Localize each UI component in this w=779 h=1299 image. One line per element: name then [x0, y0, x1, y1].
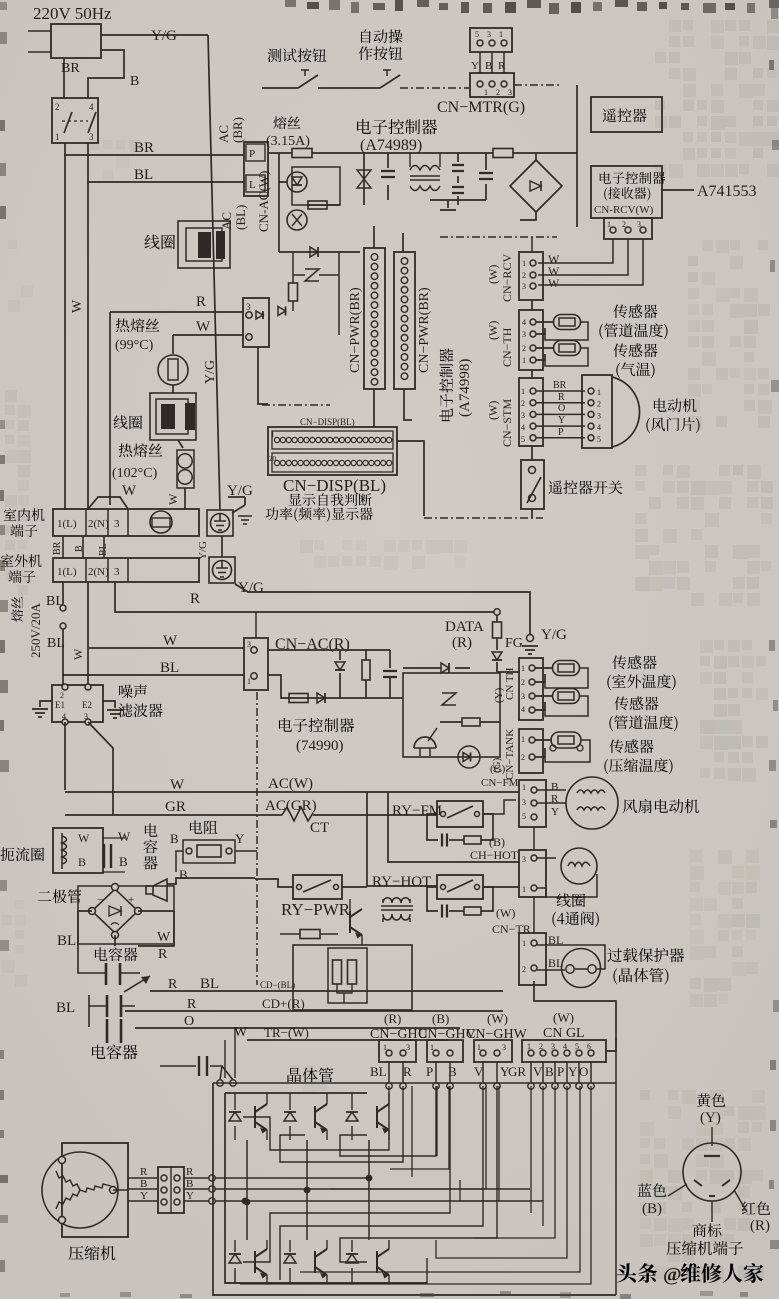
- label 电容器 bottom: [92, 1045, 138, 1060]
- label 线圈 2: [113, 415, 142, 429]
- wire AC(W) bus: [65, 791, 519, 793]
- svg-text:4: 4: [62, 712, 66, 721]
- svg-text:(74990): (74990): [296, 738, 344, 754]
- svg-text:5: 5: [597, 435, 601, 444]
- svg-text:(R): (R): [384, 1011, 401, 1026]
- capacitor C22: [107, 1019, 121, 1043]
- svg-text:W: W: [166, 493, 180, 505]
- svg-text:(A74989): (A74989): [360, 137, 422, 154]
- label 传感器 (管道温度) 2: [614, 696, 658, 710]
- svg-text:L: L: [249, 179, 256, 191]
- label 过载保护器 (晶体管): [607, 948, 684, 962]
- svg-text:BL: BL: [46, 594, 64, 609]
- svg-text:1: 1: [247, 677, 251, 686]
- wire CN-TH to CN-STM: [531, 370, 533, 378]
- svg-text:BL: BL: [370, 1064, 387, 1079]
- label 传感器 (气温): [613, 343, 657, 357]
- diode D11: [441, 663, 449, 673]
- svg-text:1: 1: [522, 885, 526, 894]
- right nest verticals and returns: [390, 1086, 449, 1169]
- label 电阻: [190, 820, 218, 834]
- svg-text:4: 4: [597, 423, 601, 432]
- svg-text:2: 2: [496, 88, 500, 97]
- svg-text:2(N): 2(N): [88, 566, 109, 578]
- wire main bus y153 with fuse: [268, 152, 292, 154]
- svg-text:3: 3: [406, 1043, 410, 1052]
- connector CN-AC(W) strip with P and L cells: [244, 142, 268, 196]
- svg-text:2: 2: [521, 753, 525, 762]
- diode D10 vertical: [339, 650, 341, 660]
- svg-text:(A74998): (A74998): [457, 359, 473, 417]
- svg-text:(R): (R): [452, 635, 472, 651]
- label 传感器 (室外温度): [612, 655, 656, 669]
- svg-text:R: R: [140, 1166, 148, 1178]
- svg-text:(W): (W): [486, 265, 500, 284]
- svg-text:1(L): 1(L): [57, 518, 77, 530]
- RY-HOT snubber: [427, 887, 438, 911]
- svg-text:(BL): (BL): [233, 205, 248, 230]
- svg-text:FG: FG: [505, 636, 523, 651]
- wire AC(W) branch down to CH-HOT: [388, 792, 519, 862]
- svg-text:1: 1: [271, 431, 275, 439]
- svg-text:DATA: DATA: [445, 619, 484, 635]
- watermark 头条@维修人家: [617, 1263, 657, 1283]
- resistor R2: [308, 201, 327, 209]
- resistor on bus right: [493, 149, 513, 158]
- wire dash-dot right of CN-MTR: [514, 84, 560, 86]
- svg-text:Y/G: Y/G: [197, 541, 209, 560]
- label 室外机端子: [1, 554, 42, 567]
- leader blue: [668, 1184, 687, 1196]
- svg-text:O: O: [184, 1014, 194, 1029]
- svg-text:1: 1: [521, 735, 525, 744]
- relay RY-HOT box: [437, 875, 483, 899]
- switch auto button: [380, 75, 400, 88]
- svg-text:CN−STM: CN−STM: [500, 399, 514, 447]
- svg-text:(W): (W): [496, 906, 515, 920]
- wire branch x367 down to RY-HOT row: [367, 792, 437, 886]
- earth symbol Y/G 1: [207, 510, 233, 536]
- svg-text:(B): (B): [432, 1011, 449, 1026]
- svg-text:P: P: [249, 148, 255, 160]
- fuse in indoor block: [150, 511, 172, 533]
- svg-text:3: 3: [522, 282, 526, 291]
- wire W to thermal fuse: [173, 334, 243, 336]
- svg-text:R: R: [158, 947, 168, 962]
- wire Y/G vertical down to earth: [208, 35, 220, 510]
- svg-text:(W): (W): [487, 1011, 508, 1026]
- svg-text:1: 1: [522, 783, 526, 792]
- wire Y/G from plug to vertical: [101, 34, 208, 36]
- svg-text:BR: BR: [52, 541, 63, 555]
- connector CN-PWR strip 1: [364, 248, 385, 389]
- svg-text:B: B: [78, 855, 86, 869]
- opto coupler U1: [287, 172, 307, 192]
- thermal fuse TF2 102C: [178, 440, 183, 448]
- label 电子控制器 (74990): [279, 718, 354, 732]
- svg-text:O: O: [579, 1064, 588, 1079]
- wire BL bus from relay to CN-AC(W): [88, 143, 244, 182]
- label 室内机端子: [4, 508, 45, 521]
- thyristor arrow R: [124, 976, 150, 992]
- transistor bank cells top row: [234, 1093, 236, 1140]
- capacitor C23 bottom: [160, 1065, 196, 1067]
- wire BR from plug down to relay: [63, 58, 65, 98]
- svg-text:P: P: [426, 1064, 433, 1079]
- wire into RY-PWR: [255, 879, 367, 887]
- wire from CN-DISP right: [397, 441, 424, 516]
- svg-text:5: 5: [521, 435, 525, 444]
- sensor RT5 compressor temp: [535, 740, 552, 757]
- small circuit left of CN-PWR strip: resistor diode zener: [292, 252, 294, 283]
- connector CN-TANK strip: [519, 729, 543, 773]
- svg-text:1: 1: [499, 30, 503, 39]
- svg-text:CN−PWR(BR): CN−PWR(BR): [417, 287, 432, 373]
- capacitor C20: [106, 963, 120, 985]
- wire BL vertical long left: [87, 182, 89, 510]
- zener D12: [442, 693, 456, 705]
- svg-text:CN−MTR(G): CN−MTR(G): [437, 99, 525, 116]
- svg-text:A741553: A741553: [697, 183, 757, 200]
- svg-text:CN−DISP(BL): CN−DISP(BL): [283, 476, 386, 495]
- wire switch down to dash-dot boundary: [531, 509, 533, 518]
- connector CN-MTR bottom pins 1 2 3: [470, 73, 514, 97]
- svg-text:BL: BL: [134, 167, 153, 183]
- svg-text:2: 2: [522, 965, 526, 974]
- diode D2 row: [279, 251, 360, 253]
- label 遥控器开关: [549, 480, 623, 494]
- capacitor C1: [387, 153, 389, 200]
- svg-text:−: −: [97, 894, 103, 906]
- svg-text:220V 50Hz: 220V 50Hz: [33, 4, 112, 23]
- phase lines from compressor: [209, 1175, 215, 1181]
- svg-text:(W): (W): [553, 1010, 574, 1025]
- piezo horn symbol: [146, 879, 167, 901]
- connector CN 2pin (3): [243, 298, 269, 347]
- bank inner left vertical: [225, 1093, 427, 1283]
- svg-text:3: 3: [597, 411, 601, 420]
- svg-text:R: R: [168, 977, 178, 992]
- svg-text:Y: Y: [471, 60, 479, 72]
- svg-text:W: W: [70, 299, 85, 313]
- svg-text:B: B: [179, 867, 188, 882]
- svg-text:TR−(W): TR−(W): [264, 1025, 309, 1040]
- transistor bank cells bottom row: [234, 1240, 236, 1283]
- svg-text:2: 2: [522, 271, 526, 280]
- wire B from plug to relay: [88, 50, 124, 98]
- svg-text:R: R: [558, 392, 565, 403]
- svg-text:3: 3: [522, 798, 526, 807]
- svg-text:(B): (B): [489, 835, 505, 849]
- inner box 74990: [403, 673, 500, 757]
- wire 74990 second rail with resistor and diode: [268, 675, 403, 698]
- label 压缩机端子: [667, 1241, 743, 1255]
- svg-text:B: B: [551, 781, 558, 793]
- wire CH-HOT strip to CN-TR strip: [533, 897, 535, 933]
- svg-text:R: R: [498, 60, 506, 72]
- svg-text:R: R: [187, 997, 197, 1012]
- noise filter box: [52, 685, 103, 722]
- svg-text:Y: Y: [235, 831, 245, 846]
- coil 4-way valve circle: [561, 848, 597, 884]
- svg-text:O: O: [558, 403, 565, 414]
- edge artifacts: [285, 0, 296, 7]
- transistor Q10: [414, 737, 436, 748]
- resistor R10 vertical: [365, 650, 367, 660]
- svg-text:Y: Y: [551, 806, 559, 818]
- wire opto to resistor: [279, 153, 340, 252]
- wire CN-STM down to remote switch: [531, 446, 533, 460]
- svg-text:2: 2: [521, 399, 525, 408]
- svg-text:GR: GR: [508, 1064, 526, 1079]
- svg-text:(G): (G): [491, 757, 503, 773]
- svg-text:W: W: [71, 648, 85, 660]
- svg-text:E2: E2: [82, 700, 92, 710]
- svg-text:Y/G: Y/G: [203, 360, 218, 384]
- compressor box: [62, 1143, 128, 1237]
- svg-text:3: 3: [487, 30, 491, 39]
- svg-text:250V/20A: 250V/20A: [28, 603, 43, 659]
- svg-text:Y/G: Y/G: [541, 627, 567, 643]
- relay RY-FM box: [437, 801, 483, 827]
- transformer T1 on bus: [410, 153, 440, 191]
- overload protector circle: [562, 949, 601, 988]
- svg-text:B: B: [545, 1064, 554, 1079]
- svg-text:2: 2: [521, 678, 525, 687]
- wire Y/G bus right: [235, 584, 530, 634]
- svg-text:2: 2: [597, 400, 601, 409]
- capacitor C2 pair: [457, 153, 459, 205]
- svg-text:3: 3: [114, 566, 120, 578]
- label 电子控制器 (A74989): [357, 119, 437, 134]
- capacitor C3: [485, 153, 487, 200]
- wire DATA chain to CN-TH strip: [497, 671, 519, 673]
- bank outer left vertical: [213, 1083, 616, 1295]
- svg-text:BR: BR: [61, 61, 80, 76]
- svg-text:RY−FM: RY−FM: [392, 803, 442, 819]
- svg-text:E1: E1: [55, 700, 65, 710]
- svg-text:W: W: [118, 829, 131, 844]
- label 自动操作按钮: [361, 29, 402, 43]
- ghost bleed-through text regions: [669, 20, 681, 32]
- remote switch SW3 遥控器开关: [521, 460, 544, 509]
- svg-text:Y/G: Y/G: [151, 28, 177, 44]
- label 传感器 (管道温度): [613, 304, 657, 318]
- capacitor C10: [389, 650, 391, 668]
- wire from connector down to dash-dot: [258, 347, 268, 404]
- collector risers bottom row: [247, 1178, 369, 1240]
- svg-text:R: R: [186, 1166, 194, 1178]
- svg-text:5: 5: [522, 812, 526, 821]
- label 噪声 滤波器: [119, 684, 147, 698]
- wires bridge out: [78, 911, 92, 946]
- svg-text:5: 5: [475, 30, 479, 39]
- wire dash-dot to CN-MTR: [400, 87, 470, 89]
- svg-text:CN−TH: CN−TH: [500, 327, 514, 367]
- wires connector pins down to nodes: [388, 1062, 390, 1083]
- RY-FM snubber cap and resistor: [427, 814, 438, 840]
- svg-text:1: 1: [521, 387, 525, 396]
- label 功率（频率）显示器: [266, 507, 373, 522]
- filter ground right: [103, 701, 115, 708]
- svg-text:CN−PWR(BR): CN−PWR(BR): [348, 287, 363, 373]
- svg-text:CN−RCV: CN−RCV: [500, 254, 514, 302]
- svg-text:V: V: [533, 1064, 543, 1079]
- svg-text:3: 3: [246, 302, 251, 312]
- transformer T2: [381, 898, 413, 922]
- svg-text:B: B: [485, 60, 492, 72]
- wires between terminal blocks: [63, 536, 104, 558]
- svg-text:4: 4: [522, 318, 526, 327]
- svg-text:Y: Y: [186, 1190, 194, 1202]
- big left box outline: [109, 312, 111, 505]
- connector CH-HOT strip: [519, 850, 546, 897]
- wires filter bottom down: [65, 722, 113, 815]
- connector CN-TH strip lower: [519, 658, 543, 720]
- svg-text:3: 3: [114, 518, 120, 530]
- svg-text:AC(GR): AC(GR): [265, 798, 317, 814]
- wire leader to A741553: [662, 189, 694, 191]
- svg-text:CN-RCV(W): CN-RCV(W): [594, 204, 654, 216]
- connector CN-FM strip: [519, 780, 546, 827]
- sensor RT4 pipe temp 2: [535, 696, 552, 710]
- top rail: [225, 1092, 367, 1094]
- dash-dot boundary mid: [424, 517, 543, 519]
- ground stub A74989: [430, 200, 486, 208]
- connector CN-STM strip: [519, 378, 543, 446]
- svg-text:CT: CT: [310, 820, 329, 836]
- label 显示自我判断: [289, 493, 372, 506]
- switch test button: [262, 87, 298, 89]
- connector CN-TR strip: [519, 933, 546, 985]
- fuse F1 3.15A: [292, 149, 312, 158]
- wire 74990 top rail: [268, 649, 390, 651]
- svg-text:R: R: [190, 591, 200, 607]
- bottom nest rails: [225, 1258, 427, 1283]
- svg-text:R: R: [403, 1064, 412, 1079]
- opto coupler U2: [287, 210, 307, 230]
- bridge rectifier diamond with pins: [92, 889, 138, 933]
- bridge box outline: [78, 886, 174, 944]
- svg-text:B: B: [140, 1178, 147, 1190]
- coil L1 top: [178, 221, 230, 268]
- wire W down from outdoor block: [87, 582, 89, 688]
- svg-text:2: 2: [60, 691, 64, 700]
- wire W down to terminal block: [184, 488, 186, 509]
- svg-text:B: B: [119, 854, 128, 869]
- svg-text:CN−TR: CN−TR: [492, 922, 531, 936]
- wire dash-dot top boundary: [440, 236, 557, 238]
- label 电子控制器 rotated: [439, 348, 453, 421]
- transistor Q20: [350, 909, 362, 935]
- label 热熔丝 (99C): [116, 318, 160, 332]
- svg-text:1(L): 1(L): [57, 566, 77, 578]
- sensor RT1 pipe temp: [536, 322, 553, 334]
- svg-text:CN−TANK: CN−TANK: [504, 729, 516, 780]
- connector CN-GHW: [474, 1040, 512, 1062]
- leader red: [734, 1190, 747, 1212]
- wire R drop to CN-AC(R) top: [255, 612, 257, 638]
- svg-text:Y: Y: [140, 1190, 148, 1202]
- sensor RT2 air temp: [536, 348, 553, 360]
- label 熔丝 (3.15A): [273, 116, 300, 129]
- svg-text:W: W: [122, 483, 137, 499]
- damper motor D-shape: [612, 377, 640, 447]
- connector CN-GHU: [379, 1040, 416, 1062]
- label 熔丝 250V/20A rotated: [11, 596, 23, 621]
- connector CN-TH strip upper: [519, 310, 543, 370]
- svg-text:Y: Y: [568, 1064, 578, 1079]
- staircase gate wires bottom: [243, 1086, 450, 1262]
- svg-text:4: 4: [89, 102, 94, 112]
- connector CN-GHV: [427, 1040, 463, 1062]
- svg-text:1: 1: [522, 939, 526, 948]
- relay RY-PWR box: [293, 875, 342, 899]
- svg-text:GR: GR: [165, 799, 186, 815]
- wire CN-TR down and right: [534, 981, 616, 1051]
- svg-text:W: W: [170, 777, 185, 793]
- wires from A74989 down to CN-PWR strips: [374, 226, 403, 252]
- connector CN-PWR strip 2: [394, 252, 415, 389]
- wire RY-HOT to CH-HOT pin1: [483, 886, 519, 888]
- resistor + diode DATA chain: [496, 615, 498, 622]
- wire CN-RCV to CN-TH: [531, 300, 533, 310]
- filter ground left: [40, 701, 52, 707]
- svg-text:(102°C): (102°C): [112, 466, 158, 481]
- svg-text:W: W: [548, 276, 560, 290]
- wire W bus to CN-AC(R): [88, 647, 244, 649]
- connector receiver pins 1 2 3: [604, 218, 652, 239]
- svg-text:3: 3: [522, 855, 526, 864]
- wires CN-PWR strips down: [374, 389, 412, 427]
- svg-text:3: 3: [521, 692, 525, 701]
- label 压缩机: [69, 1246, 116, 1261]
- svg-text:1: 1: [55, 132, 60, 142]
- svg-text:W: W: [78, 831, 90, 845]
- svg-text:CN-AC(W): CN-AC(W): [256, 171, 271, 232]
- svg-text:1: 1: [522, 259, 526, 268]
- svg-text:B: B: [186, 1178, 193, 1190]
- terminal block indoor: [53, 509, 199, 536]
- compressor motor circle: [42, 1152, 118, 1228]
- power plug box: [51, 24, 101, 58]
- svg-text:(W): (W): [486, 401, 500, 420]
- svg-text:(R): (R): [750, 1218, 770, 1234]
- svg-text:3: 3: [508, 88, 512, 97]
- wires resistor box sides: [176, 851, 183, 872]
- svg-text:2: 2: [522, 344, 526, 353]
- label 热熔丝 (102C): [119, 443, 163, 457]
- resistor R11: [462, 718, 480, 726]
- wire BR bus from relay to CN-AC(W): [65, 143, 244, 155]
- wire AC(GR) bus: [65, 814, 282, 816]
- svg-text:2: 2: [55, 102, 60, 112]
- svg-text:RY−HOT: RY−HOT: [372, 874, 431, 890]
- wires CN-MTR between connectors: [480, 52, 504, 73]
- svg-text:BL: BL: [47, 636, 65, 651]
- emitter drops with junction dots: [247, 1140, 369, 1202]
- svg-text:CD+(R): CD+(R): [262, 996, 305, 1011]
- label 扼流圈: [1, 847, 45, 861]
- CT current transformer zigzag: [282, 807, 313, 821]
- svg-text:BL: BL: [57, 933, 76, 949]
- svg-text:BL: BL: [200, 976, 219, 992]
- svg-text:W: W: [157, 930, 171, 945]
- label 线圈: [144, 235, 175, 250]
- compressor terminal circle: [683, 1143, 741, 1201]
- wire CN-FM hook: [483, 800, 516, 814]
- connector CN-AC(R) strip: [244, 638, 268, 690]
